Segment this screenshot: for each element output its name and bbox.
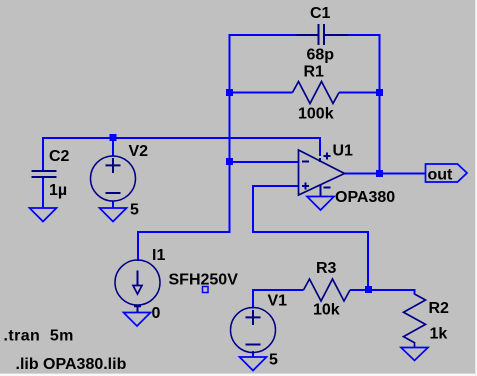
- svg-text:U1: U1: [333, 143, 354, 160]
- junction node right vertical R1 row: [376, 89, 383, 96]
- svg-text:5: 5: [130, 202, 139, 219]
- svg-text:68p: 68p: [307, 47, 335, 64]
- capacitor C1: [296, 24, 348, 45]
- value 68p: [307, 47, 335, 64]
- junction node left vertical R1 row: [226, 89, 233, 96]
- current source I1: [115, 260, 160, 313]
- ground op-amp: [307, 197, 334, 211]
- label C2: [49, 148, 70, 165]
- op-amp U1: [299, 150, 345, 197]
- label out: [428, 167, 454, 184]
- wire V+ rail from C2 to op-amp: [42, 137, 320, 156]
- wire top C1 branch: [229, 34, 381, 36]
- label R1: [304, 64, 325, 81]
- junction node left vertical inverting input: [226, 158, 233, 165]
- svg-text:R1: R1: [304, 64, 325, 81]
- ground R2: [401, 348, 428, 361]
- wire C2 leads: [42, 137, 44, 208]
- value OPA380: [335, 189, 395, 206]
- svg-text:V1: V1: [268, 293, 288, 310]
- wire I1 branch: [137, 231, 231, 261]
- wire R3 to R2 row: [350, 289, 416, 295]
- port out: [426, 164, 468, 182]
- wire inverting input: [230, 161, 299, 163]
- ground V2: [100, 208, 127, 222]
- junction node output: [376, 170, 383, 177]
- wire V1 lead and R3 row left: [252, 289, 304, 309]
- directive tran: [4, 328, 74, 345]
- window edge right: [475, 0, 477, 376]
- svg-text:R2: R2: [429, 300, 450, 317]
- value SFH250V: [169, 272, 239, 289]
- ground V1: [240, 357, 267, 371]
- resistor R3: [304, 279, 351, 301]
- label U1: [333, 143, 354, 160]
- label R3: [316, 260, 337, 277]
- capacitor C2: [32, 171, 57, 177]
- resistor R2: [404, 294, 426, 348]
- svg-text:100k: 100k: [298, 106, 334, 123]
- resistor R1: [293, 82, 340, 104]
- directive lib: [16, 356, 127, 373]
- label I1: [152, 247, 165, 264]
- value 100k: [298, 106, 334, 123]
- value 1u: [49, 182, 67, 199]
- svg-text:10k: 10k: [313, 302, 340, 319]
- label V2: [129, 143, 149, 160]
- junction node R3 R2: [365, 286, 372, 293]
- svg-text:.tran 5m: .tran 5m: [4, 328, 74, 345]
- svg-text:OPA380: OPA380: [335, 189, 395, 206]
- wire V1 bottom lead: [252, 351, 254, 357]
- wire V2 leads: [112, 137, 114, 208]
- node marker unconnected: [203, 287, 209, 293]
- value 10k: [313, 302, 340, 319]
- window edge bottom: [0, 373, 477, 376]
- svg-text:1µ: 1µ: [49, 182, 67, 199]
- svg-text:C2: C2: [49, 148, 70, 165]
- ground C2: [30, 208, 57, 222]
- value 5 V2: [130, 202, 139, 219]
- svg-text:SFH250V: SFH250V: [169, 272, 239, 289]
- svg-text:I1: I1: [152, 247, 165, 264]
- svg-text:1k: 1k: [430, 326, 448, 343]
- junction node V2 top: [110, 134, 117, 141]
- svg-text:out: out: [428, 167, 454, 184]
- voltage source V1: [231, 308, 276, 353]
- value 0: [152, 305, 161, 322]
- label R2: [429, 300, 450, 317]
- label C1: [310, 5, 331, 22]
- wire op-amp output: [344, 173, 426, 175]
- ground I1: [124, 313, 151, 327]
- wire R1 row: [230, 92, 380, 94]
- voltage source V2: [91, 156, 136, 201]
- value 5 V1: [269, 352, 278, 369]
- svg-text:C1: C1: [310, 5, 331, 22]
- svg-text:0: 0: [152, 305, 161, 322]
- label V1: [268, 293, 288, 310]
- svg-text:V2: V2: [129, 143, 149, 160]
- wire left vertical: [229, 34, 231, 233]
- svg-text:R3: R3: [316, 260, 337, 277]
- value 1k: [430, 326, 448, 343]
- wire noninverting input net: [252, 185, 368, 290]
- svg-text:5: 5: [269, 352, 278, 369]
- svg-text:.lib OPA380.lib: .lib OPA380.lib: [16, 356, 127, 373]
- wire right vertical: [379, 34, 381, 175]
